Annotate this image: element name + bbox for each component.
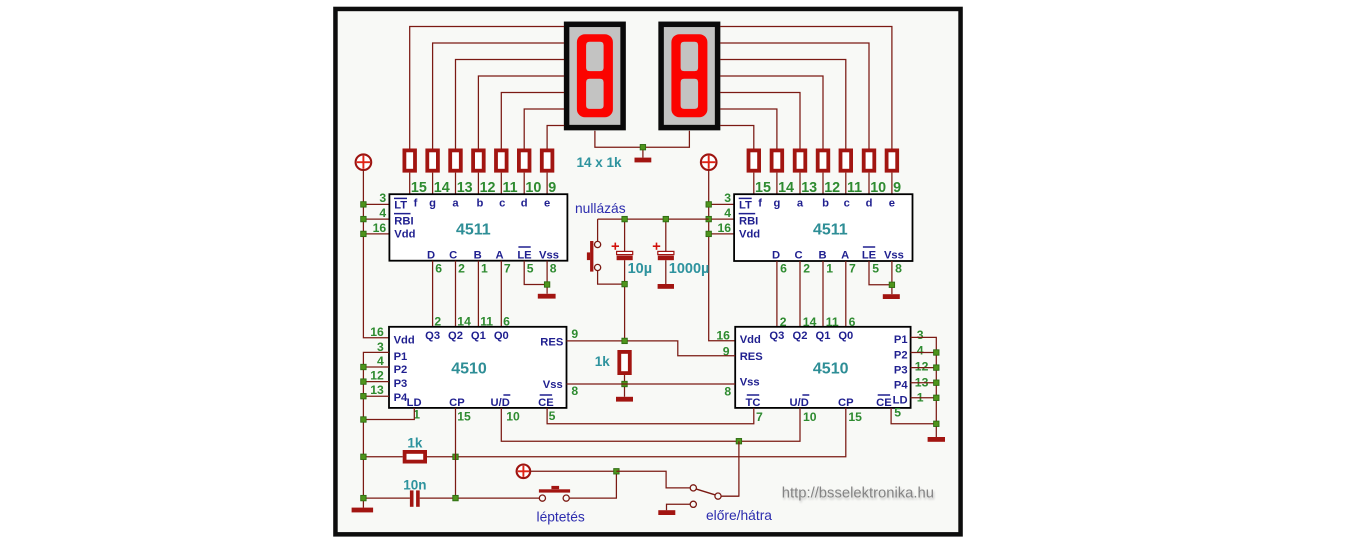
svg-text:16: 16 [373, 221, 387, 235]
wire DS1 segment f [410, 27, 564, 149]
wire R15 bottom to ground [624, 375, 626, 397]
svg-text:b: b [822, 198, 829, 210]
svg-text:CE: CE [538, 397, 554, 409]
wire C2 top [665, 219, 667, 251]
wire DS1 segment e [547, 126, 564, 149]
svg-text:4: 4 [377, 354, 384, 368]
svg-text:10µ: 10µ [628, 261, 652, 277]
svg-text:CP: CP [838, 397, 854, 409]
node junction U1 pin4 [361, 216, 366, 221]
svg-text:C: C [449, 249, 457, 261]
U2 left pin numbers 3 4 16 [717, 191, 731, 235]
node C3/CP junction [453, 495, 458, 500]
svg-text:Q1: Q1 [471, 330, 486, 342]
wire to SW1 up throw [616, 471, 690, 488]
node junction U3 P4 [361, 394, 366, 399]
svg-text:16: 16 [717, 221, 731, 235]
U1 segment pin labels f g a b c d e [414, 198, 551, 210]
U1 bottom pin numbers 6 2 1 7 5 8 [435, 262, 557, 276]
wire Vss row U3 pin8 to U4 pin8 [567, 383, 736, 385]
U4 right pin labels P1 P2 P3 P4 LD [893, 334, 909, 406]
svg-text:5: 5 [894, 405, 901, 419]
7-segment display DS2 [661, 24, 718, 127]
wire stub U4 P2 [911, 352, 937, 354]
wire DS2 segment b [720, 76, 823, 149]
U4 top pin labels Q3 Q2 Q1 Q0 [769, 330, 853, 342]
wire DS2 segment a [720, 93, 800, 149]
svg-text:d: d [866, 198, 873, 210]
wire U1 LE to Vss [524, 261, 547, 285]
ground U1 Vss [538, 294, 556, 299]
wire DS2 segment c [720, 60, 846, 149]
ground left bus [352, 508, 374, 513]
svg-text:4511: 4511 [813, 222, 848, 239]
svg-text:15: 15 [848, 410, 862, 424]
svg-text:D: D [772, 249, 780, 261]
terminal S2 right [563, 495, 569, 501]
svg-text:10: 10 [803, 410, 817, 424]
wire R5 to U1 pin [500, 173, 502, 195]
wire stub U1 pin3 [363, 203, 389, 205]
wire Vcc to S2 node [530, 470, 616, 472]
svg-text:13: 13 [370, 383, 384, 397]
wire DS2 segment g [720, 109, 777, 149]
wire R3 to U1 pin [455, 173, 457, 195]
resistor R5 1k [496, 150, 507, 170]
U3 right pin labels RES Vss [540, 336, 564, 391]
U3 right pin numbers 9 8 [571, 327, 578, 398]
svg-text:Vdd: Vdd [739, 229, 760, 241]
svg-text:g: g [429, 198, 436, 210]
wire R8 to U2 pin [753, 173, 755, 195]
wire left A-Q0 [500, 261, 502, 327]
svg-text:e: e [544, 198, 550, 210]
node U/D junction [736, 439, 741, 444]
svg-text:CP: CP [449, 397, 465, 409]
node C1/S1 junction [622, 281, 627, 286]
wire U3 U/D to junction [501, 408, 739, 441]
ground SW1 [658, 510, 675, 515]
wire GND bus to R16 [363, 456, 402, 458]
wire U4 CE to GND bus [891, 408, 936, 424]
node junction U1 pin3 [361, 202, 366, 207]
svg-text:P2: P2 [394, 364, 408, 376]
wire S1 bottom to C1 node [598, 271, 622, 285]
svg-text:4511: 4511 [456, 222, 491, 239]
wire R9 to U2 pin [776, 173, 778, 195]
wire R6 to U1 pin [523, 173, 525, 195]
U4 left pin numbers 16 9 8 [716, 328, 731, 398]
node C1 Vcc junction [622, 216, 627, 221]
U3 top pin labels Q3 Q2 Q1 Q0 [425, 330, 509, 342]
svg-text:P2: P2 [894, 349, 908, 361]
node RES junction [622, 338, 627, 343]
svg-text:2: 2 [458, 262, 465, 276]
svg-text:RES: RES [740, 351, 764, 363]
svg-text:TC: TC [746, 397, 761, 409]
wire right B-Q1 [822, 261, 824, 327]
resistor R6 1k [519, 150, 530, 170]
wire right A-Q0 [845, 261, 847, 327]
svg-text:3: 3 [724, 191, 731, 205]
wire stub U3 P2 [363, 366, 389, 368]
schematic frame [333, 7, 963, 537]
svg-text:U/D: U/D [491, 397, 510, 409]
power symbol Vcc right [701, 154, 717, 170]
ground U2 Vss [883, 294, 900, 299]
resistor R13 1k [864, 150, 875, 170]
wire R4 to U1 pin [477, 173, 479, 195]
U4 right pin numbers 3 4 12 13 1 [915, 328, 929, 405]
svg-text:előre/hátra: előre/hátra [706, 508, 772, 523]
svg-text:LE: LE [517, 249, 532, 261]
svg-text:12: 12 [915, 359, 929, 373]
wire S2 right terminal [569, 471, 616, 498]
svg-text:7: 7 [504, 262, 511, 276]
wire common ground stub [642, 147, 644, 157]
ground C2 [658, 284, 674, 289]
wire stub U2 pin3 [709, 203, 734, 205]
resistor R4 1k [473, 150, 484, 170]
wire U2 Vss to ground [891, 261, 893, 294]
U1 left pin numbers 3 4 16 [373, 191, 387, 235]
svg-text:Vdd: Vdd [394, 229, 415, 241]
svg-text:4: 4 [379, 206, 386, 220]
node junction U2 pin3 [706, 202, 711, 207]
svg-text:5: 5 [549, 409, 556, 423]
wire R7 to U1 pin [546, 173, 548, 195]
wire stub U1 pin4 [363, 218, 389, 220]
wire DS1 segment c [501, 93, 564, 149]
svg-text:9: 9 [723, 345, 730, 359]
svg-text:12: 12 [370, 369, 384, 383]
terminal SW1 down throw [690, 501, 696, 507]
node U4 CE junction [934, 421, 939, 426]
wire Vcc bus left to U3 Vdd [363, 170, 389, 338]
wire U1 Vss to ground [546, 261, 548, 294]
ground display common [635, 158, 652, 163]
svg-text:LT: LT [394, 199, 407, 211]
svg-text:LT: LT [739, 199, 752, 211]
svg-text:Q0: Q0 [494, 330, 509, 342]
op IC U1 4511 [389, 194, 567, 261]
svg-text:LE: LE [862, 249, 877, 261]
U2 left pin labels LT RBI Vdd [739, 198, 761, 240]
svg-text:nullázás: nullázás [575, 201, 626, 216]
wire DS2 segment f [720, 126, 754, 149]
node junction U4 P4 [934, 380, 939, 385]
svg-text:A: A [841, 249, 849, 261]
node C2 Vcc junction [663, 216, 668, 221]
node junction U2 pin4 [706, 216, 711, 221]
node junction U2 pin16 [706, 231, 711, 236]
svg-text:8: 8 [724, 384, 731, 398]
wire R2 to U1 pin [432, 173, 434, 195]
power symbol Vcc léptetés [517, 465, 531, 479]
wire left B-Q1 [477, 261, 479, 327]
svg-text:Q2: Q2 [448, 330, 463, 342]
svg-text:Q0: Q0 [838, 330, 853, 342]
svg-text:e: e [889, 198, 895, 210]
svg-text:A: A [495, 249, 503, 261]
svg-text:P1: P1 [394, 351, 408, 363]
wire right C-Q2 [799, 261, 801, 327]
svg-text:16: 16 [370, 325, 384, 339]
svg-text:http://bsselektronika.hu: http://bsselektronika.hu [782, 486, 934, 502]
svg-text:Q2: Q2 [793, 330, 808, 342]
wire U3 LD to GND bus [363, 408, 414, 420]
svg-text:4: 4 [724, 206, 731, 220]
svg-text:Q3: Q3 [425, 330, 440, 342]
wire R12 to U2 pin [845, 173, 847, 195]
svg-text:5: 5 [527, 262, 534, 276]
svg-text:8: 8 [895, 262, 902, 276]
terminal S1 top [595, 241, 601, 247]
node R16 junction left [361, 454, 366, 459]
svg-text:7: 7 [849, 262, 856, 276]
svg-text:4510: 4510 [451, 360, 487, 377]
wire SW1 down throw to ground [667, 504, 691, 510]
U2 bottom pin numbers 6 2 1 7 5 8 [780, 262, 902, 276]
op IC U4 4510 [735, 327, 910, 408]
svg-text:g: g [773, 198, 780, 210]
U4 bottom pin numbers 7 10 15 5 [756, 405, 901, 424]
svg-text:Q1: Q1 [816, 330, 831, 342]
resistor R15 1k vertical [619, 352, 630, 373]
pin numbers above U1 [411, 180, 556, 196]
svg-text:a: a [452, 198, 459, 210]
svg-text:1k: 1k [407, 436, 423, 451]
U2 segment pin labels f g a b c d e [758, 198, 895, 210]
U3 bottom pin numbers 1 15 10 5 [413, 408, 555, 424]
U3 left pin numbers 16 3 4 12 13 [370, 325, 384, 397]
wire C2 bottom [665, 260, 667, 284]
wire U2 LE to Vss [869, 261, 892, 285]
ground right bus [928, 437, 945, 442]
node R15/Vss junction [622, 381, 627, 386]
svg-text:CE: CE [876, 397, 892, 409]
wire U3 CP column [455, 408, 457, 498]
svg-text:8: 8 [550, 262, 557, 276]
svg-text:Vss: Vss [740, 376, 760, 388]
U1 bottom pin labels D C B A LE Vss [427, 247, 559, 261]
wire DS1 segment b [478, 76, 564, 149]
resistor R2 1k [427, 150, 438, 170]
svg-text:5: 5 [872, 262, 879, 276]
svg-text:f: f [758, 198, 762, 210]
wire C1 top [624, 219, 626, 251]
wire R11 to U2 pin [822, 173, 824, 195]
wire stub U2 pin4 [709, 218, 734, 220]
wire right D-Q3 [776, 261, 778, 327]
resistor R10 1k [795, 150, 806, 170]
wire U4 U/D to junction [739, 408, 800, 441]
wire left GND bus [363, 352, 389, 507]
wire right GND bus [911, 337, 937, 437]
wire stub U4 P3 [911, 367, 937, 369]
wire R1 to U1 pin [409, 173, 411, 195]
svg-text:4: 4 [917, 343, 924, 357]
capacitor C3 10n [410, 490, 420, 506]
terminal SW1 up throw [690, 485, 696, 491]
svg-text:1k: 1k [595, 354, 611, 369]
U3 bottom pin labels LD CP U/D CE [407, 395, 555, 409]
resistor R8 1k [749, 150, 760, 170]
svg-text:léptetés: léptetés [537, 510, 585, 525]
wire stub U3 P3 [363, 381, 389, 383]
U4 top pin numbers 2 14 11 6 [780, 315, 856, 329]
wire DS2 segment e [720, 27, 892, 149]
resistor R14 1k [887, 150, 898, 170]
svg-text:1: 1 [481, 262, 488, 276]
wire stub U1 pin16 [363, 233, 389, 235]
node CP junction [453, 454, 458, 459]
svg-text:RBI: RBI [739, 216, 758, 228]
wire DS1 segment g [433, 43, 564, 149]
svg-text:15: 15 [457, 409, 471, 423]
node S2/switch junction [614, 469, 619, 474]
node junction U4 LD [934, 395, 939, 400]
capacitor C1 10µ [617, 251, 633, 260]
wire S1 top to Vcc row [597, 219, 599, 241]
resistor R11 1k [818, 150, 829, 170]
C2 plus mark [653, 243, 660, 250]
node junction U3 P2 [361, 364, 366, 369]
U2 bottom pin labels D C B A LE Vss [772, 247, 904, 261]
U3 left pin labels Vdd P1 P2 P3 P4 [394, 335, 415, 405]
svg-text:Vdd: Vdd [394, 335, 415, 347]
svg-text:C: C [795, 249, 803, 261]
svg-text:B: B [818, 249, 826, 261]
wire nullázás Vcc row [598, 218, 709, 220]
node junction U1 pin16 [361, 231, 366, 236]
svg-text:a: a [797, 198, 804, 210]
wire R16 to U4 CP [427, 408, 846, 457]
svg-text:Vss: Vss [884, 249, 904, 261]
wire Vcc bus right to U4 Vdd [709, 170, 736, 341]
resistor R9 1k [772, 150, 783, 170]
svg-text:d: d [521, 198, 528, 210]
svg-text:c: c [499, 198, 505, 210]
C1 plus mark [612, 243, 619, 250]
svg-text:RBI: RBI [394, 216, 413, 228]
svg-text:14 x 1k: 14 x 1k [576, 155, 622, 170]
node C3 junction left [361, 495, 366, 500]
wire R10 to U2 pin [799, 173, 801, 195]
wire left D-Q3 [432, 261, 434, 327]
wire stub U4 LD [911, 397, 937, 399]
svg-text:10n: 10n [403, 477, 426, 492]
capacitor C2 1000µ [658, 251, 674, 260]
wire stub U3 P4 [363, 395, 389, 397]
svg-text:Vss: Vss [543, 379, 563, 391]
pushbutton S2 léptetés [539, 486, 570, 493]
wire GND bus to C3 [363, 497, 410, 499]
resistor R1 1k [404, 150, 415, 170]
wire DS1 segment a [456, 60, 565, 149]
wire stub U4 P4 [911, 382, 937, 384]
svg-text:1000µ: 1000µ [669, 261, 710, 277]
svg-text:b: b [476, 198, 483, 210]
7-segment display DS1 [567, 24, 624, 127]
svg-text:6: 6 [780, 262, 787, 276]
wire C1 bottom to RES node [624, 260, 626, 341]
wire DS1 segment d [524, 109, 564, 149]
switch SW1 lever [696, 489, 715, 495]
svg-text:7: 7 [756, 410, 763, 424]
U4 bottom pin labels TC U/D CP CE [746, 395, 893, 409]
svg-text:8: 8 [571, 384, 578, 398]
svg-text:10: 10 [506, 409, 520, 423]
svg-text:P3: P3 [894, 364, 908, 376]
svg-text:Q3: Q3 [769, 330, 784, 342]
svg-text:9: 9 [571, 327, 578, 341]
node display common junction [640, 145, 645, 150]
terminal S1 bottom [595, 264, 601, 270]
svg-text:4510: 4510 [813, 360, 849, 377]
ground R15 [616, 397, 633, 402]
pin numbers above U2 [755, 180, 901, 196]
node U1 LE/Vss junction [544, 282, 549, 287]
wire display commons [595, 131, 690, 147]
resistor R16 1k horizontal [405, 452, 426, 462]
op IC U2 4511 [734, 194, 912, 261]
terminal SW1 pole [715, 493, 721, 499]
svg-text:D: D [427, 249, 435, 261]
node junction U4 P2 [934, 350, 939, 355]
wire R14 to U2 pin [891, 173, 893, 195]
U1 left pin labels LT RBI Vdd [394, 198, 416, 240]
svg-text:B: B [474, 249, 482, 261]
pushbutton S1 nullázás [587, 241, 593, 272]
svg-text:U/D: U/D [790, 397, 809, 409]
svg-text:3: 3 [917, 328, 924, 342]
svg-text:16: 16 [716, 328, 730, 342]
svg-text:c: c [844, 198, 850, 210]
resistor R3 1k [450, 150, 461, 170]
svg-text:6: 6 [435, 262, 442, 276]
svg-text:Vdd: Vdd [740, 334, 761, 346]
svg-text:f: f [414, 198, 418, 210]
wire R13 to U2 pin [868, 173, 870, 195]
resistor R7 1k [542, 150, 553, 170]
power symbol Vcc left [356, 154, 372, 170]
terminal S2 left [539, 495, 545, 501]
U3 top pin numbers 2 14 11 6 [434, 315, 510, 329]
U4 left pin labels Vdd RES Vss [740, 334, 764, 388]
svg-text:P4: P4 [894, 380, 908, 392]
node junction U3 P3 [361, 379, 366, 384]
resistor R12 1k [841, 150, 852, 170]
svg-text:Vss: Vss [539, 249, 559, 261]
svg-text:2: 2 [803, 262, 810, 276]
svg-text:1: 1 [826, 262, 833, 276]
wire DS2 segment d [720, 43, 869, 149]
svg-text:P1: P1 [894, 334, 908, 346]
svg-text:P3: P3 [394, 378, 408, 390]
wire SW1 pole wire [721, 495, 739, 497]
wire left C-Q2 [455, 261, 457, 327]
node junction U4 P3 [934, 365, 939, 370]
svg-text:RES: RES [540, 336, 564, 348]
op IC U3 4510 [389, 327, 567, 408]
wire U3 CE to U4 TC [547, 408, 754, 424]
node U2 LE/Vss junction [889, 282, 894, 287]
node U3 LD junction [361, 417, 366, 422]
wire RES net U3 pin9 to U4 pin9 [567, 341, 736, 356]
wire C3 to S2 [420, 497, 540, 499]
svg-text:3: 3 [379, 191, 386, 205]
